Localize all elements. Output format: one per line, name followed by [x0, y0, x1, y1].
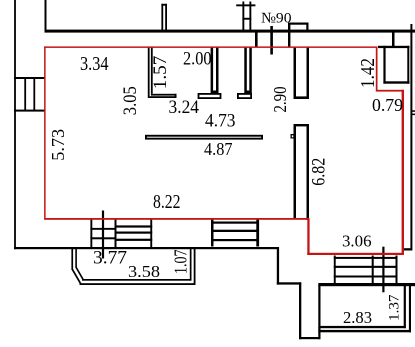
left window bottom bar	[14, 110, 45, 112]
wall bump above top wall	[288, 23, 290, 48]
svg-text:5.73: 5.73	[48, 129, 68, 161]
bottom outer wall	[14, 247, 279, 249]
top-left vertical wall stub	[45, 0, 47, 31]
svg-text:3.34: 3.34	[80, 54, 109, 75]
tick marks right edge	[412, 110, 415, 112]
vent shaft below red line	[294, 48, 297, 100]
bottom room box	[318, 285, 320, 328]
top main wall	[45, 30, 415, 33]
dimension tick 2.90 doorway	[270, 26, 273, 55]
svg-text:3.77: 3.77	[93, 249, 127, 269]
svg-text:3.24: 3.24	[169, 97, 200, 118]
red boundary bottom of big room	[44, 218, 309, 220]
bottom right window hatch	[334, 256, 336, 285]
svg-text:1.07: 1.07	[171, 250, 191, 275]
left outer wall	[14, 0, 16, 249]
red boundary right vertical	[402, 90, 404, 255]
dimension tick 1.37	[382, 247, 384, 293]
svg-text:6.82: 6.82	[309, 158, 330, 186]
tall middle rectangle wall	[294, 124, 310, 126]
svg-text:4.73: 4.73	[205, 111, 236, 132]
svg-text:1.57: 1.57	[150, 56, 171, 90]
red boundary left	[44, 46, 46, 219]
red boundary bottom right	[307, 253, 403, 255]
vent shaft above top wall	[242, 2, 244, 31]
svg-text:2.83: 2.83	[343, 308, 372, 327]
bottom left window hatch	[90, 220, 92, 248]
door jamb left of opening	[255, 32, 258, 47]
svg-text:4.87: 4.87	[204, 139, 233, 159]
left window top bar	[14, 77, 45, 79]
red boundary top right horizontal	[376, 90, 404, 92]
dimension tick 3.77	[102, 211, 104, 259]
red boundary mid vertical	[307, 219, 309, 255]
top right small room outline	[378, 46, 410, 48]
svg-text:2.00: 2.00	[183, 49, 212, 70]
svg-text:1.37: 1.37	[386, 294, 402, 321]
balcony inner outline	[75, 249, 77, 268]
interior wall B	[244, 48, 252, 94]
svg-text:3.05: 3.05	[120, 86, 141, 115]
interior wall 4.87	[145, 135, 263, 140]
door jamb top right	[392, 32, 395, 47]
interior L-wall kitchen	[148, 48, 150, 99]
notch on tall rectangle	[291, 134, 295, 139]
svg-text:3.58: 3.58	[128, 262, 160, 281]
left window mullions	[24, 78, 26, 111]
svg-text:1.42: 1.42	[358, 58, 379, 88]
step outline bottom center	[277, 247, 279, 285]
interior wall A	[211, 48, 219, 94]
bottom right thick wall	[318, 283, 415, 286]
red boundary right top vertical	[376, 47, 378, 92]
svg-text:2.90: 2.90	[270, 86, 290, 112]
balcony outer outline	[71, 249, 73, 270]
svg-text:8.22: 8.22	[153, 192, 181, 213]
chimney stub above top wall	[161, 4, 163, 31]
svg-text:0.79: 0.79	[372, 95, 403, 115]
svg-text:3.06: 3.06	[342, 232, 372, 251]
svg-text:№90: №90	[261, 11, 292, 27]
wall A end plate	[198, 93, 222, 99]
red apartment boundary top	[44, 46, 377, 48]
long right outer wall	[410, 24, 412, 251]
wall B end plate	[237, 93, 252, 99]
bottom center window	[211, 220, 214, 247]
